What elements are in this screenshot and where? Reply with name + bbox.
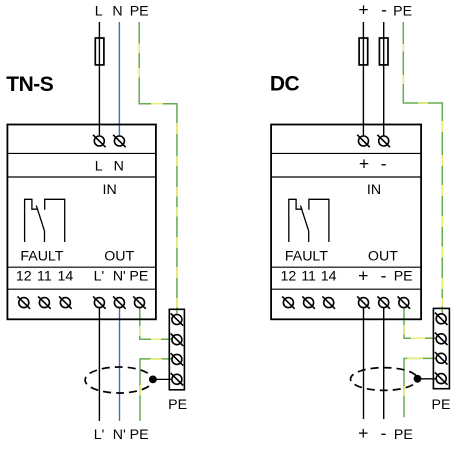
svg-text:PE: PE (393, 4, 412, 20)
svg-text:OUT: OUT (104, 248, 134, 264)
svg-text:PE: PE (394, 427, 413, 443)
svg-text:L: L (95, 4, 103, 20)
svg-text:N: N (112, 4, 122, 20)
svg-text:PE: PE (130, 4, 149, 20)
svg-text:DC: DC (270, 73, 300, 96)
svg-text:-: - (381, 423, 387, 443)
svg-text:14: 14 (321, 268, 337, 284)
svg-text:11: 11 (37, 268, 52, 284)
svg-text:12: 12 (281, 268, 297, 284)
svg-text:TN-S: TN-S (6, 73, 53, 96)
svg-text:+: + (359, 154, 369, 174)
svg-text:OUT: OUT (368, 248, 398, 264)
svg-text:PE: PE (394, 268, 413, 284)
svg-text:PE: PE (168, 397, 187, 413)
svg-text:PE: PE (129, 268, 148, 284)
svg-text:FAULT: FAULT (285, 248, 328, 264)
svg-text:FAULT: FAULT (20, 248, 63, 264)
svg-text:+: + (358, 0, 368, 20)
svg-text:N': N' (113, 427, 126, 443)
svg-text:11: 11 (301, 268, 316, 284)
svg-text:+: + (358, 266, 368, 286)
svg-text:L: L (95, 158, 103, 174)
svg-text:N': N' (113, 268, 126, 284)
svg-text:L': L' (94, 268, 105, 284)
svg-text:IN: IN (367, 182, 381, 198)
svg-text:+: + (358, 423, 368, 443)
svg-text:-: - (381, 265, 387, 285)
svg-text:12: 12 (16, 268, 32, 284)
svg-text:IN: IN (103, 182, 117, 198)
svg-text:14: 14 (58, 268, 74, 284)
svg-text:N: N (114, 158, 124, 174)
svg-text:-: - (381, 0, 387, 19)
svg-text:PE: PE (432, 397, 451, 413)
svg-text:PE: PE (130, 427, 149, 443)
svg-text:-: - (381, 153, 387, 173)
svg-text:L': L' (94, 427, 105, 443)
